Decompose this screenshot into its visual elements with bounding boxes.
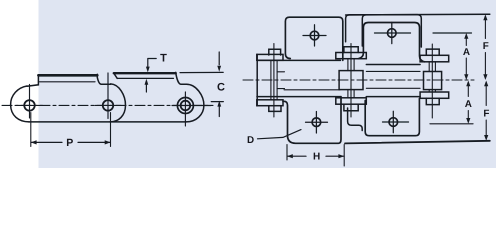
pin Pc axis line (431, 44, 433, 118)
svg-text:A: A (463, 47, 470, 58)
attachment plate lower-left outline (283, 97, 341, 144)
dimension P left extension line (30, 113, 32, 147)
svg-text:C: C (217, 81, 225, 93)
hole upper-left circle (310, 31, 319, 40)
wire: chain bottom edge span 2 (366, 96, 420, 98)
wire: flat 1 right step down (97, 74, 110, 84)
pin Pc roller box (424, 72, 442, 90)
dimension T bottom arrow (145, 79, 149, 85)
dimension T bottom leg (145, 83, 147, 93)
pin Pc bottom head box (426, 98, 439, 104)
pin P2 circle (103, 100, 114, 111)
svg-text:F: F (483, 108, 489, 119)
dimension C bottom arrow (217, 101, 221, 107)
dimension C top arrow (217, 66, 221, 72)
pin Pa bottom head box (269, 106, 281, 112)
dimension H right extension line (343, 145, 345, 167)
dimension P line left segment (31, 141, 62, 143)
attachment flat 2 left slant end (114, 73, 117, 78)
attachment plate upper-right outer profile (346, 15, 422, 47)
pin P1 horizontal crosshair (17, 104, 43, 106)
pin Pc top washer bar (420, 55, 449, 62)
pin P3 vertical crosshair (184, 92, 186, 126)
pin Pc bottom washer bar (420, 92, 449, 98)
dimension A top line (465, 35, 467, 78)
wire: chain top edge span 1 (257, 59, 341, 61)
dimension A bottom up-arrow (466, 81, 470, 87)
dimension F bottom down-arrow (484, 135, 488, 141)
wire: chain centerline (plan) (243, 79, 474, 81)
dimension C bottom extension tick (211, 101, 223, 103)
pin P3 roller circle (177, 98, 193, 114)
svg-text:P: P (66, 137, 73, 149)
dimension A top up-arrow (464, 33, 468, 39)
attachment plate lower-right bend rectangle (365, 99, 419, 136)
wire: flat 2 right step down (176, 72, 187, 84)
dimension C bottom leg (218, 104, 220, 117)
pin Pa shaft lines (271, 60, 277, 100)
dimension A bottom line (467, 83, 469, 122)
pin Pb bottom washer bar (336, 98, 367, 104)
attachment flat 1 top (thick plate edge) (38, 74, 97, 77)
dimension F top up-arrow (483, 14, 487, 20)
attachment flat 2 top (114, 72, 176, 74)
hole lower-left circle (312, 118, 321, 127)
pin Pb roller box (339, 71, 363, 90)
dimension T top arrow (146, 67, 150, 73)
dimension T bracket (148, 59, 156, 68)
hole upper-left crosshair (303, 25, 326, 46)
pin Pa bushing stubs (277, 72, 284, 89)
hole upper-right circle (388, 29, 397, 38)
pin P1 vertical crosshair (29, 85, 31, 119)
attachment flat 2 bottom line (117, 77, 173, 79)
dimension A bottom extension line (430, 123, 473, 125)
attachment plate upper-right bend rectangle (358, 23, 424, 62)
pin Pc top head box (426, 49, 439, 55)
attachment plate lower-right step profile (348, 108, 363, 131)
pin Pb bottom head box (344, 104, 358, 111)
wire: chain top inner edge span 2 (366, 70, 420, 72)
dimension C top extension line (180, 71, 223, 73)
pin P2 horizontal crosshair (95, 104, 121, 106)
pin P1 circle (24, 100, 35, 111)
hole lower-right circle (389, 118, 398, 127)
svg-text:H: H (313, 152, 320, 163)
dimension F bottom up-arrow (484, 81, 488, 87)
dimension F top line (484, 17, 486, 79)
pin Pa axis line (273, 44, 275, 118)
dimension F bottom line (485, 83, 487, 139)
link 2 left end arc around pin P2 (110, 84, 126, 122)
pin Pc shaft lines (429, 62, 435, 92)
pin Pb axis line (350, 44, 352, 118)
pin Pa bottom washer bar (257, 100, 283, 106)
dimension H right arrow (338, 154, 344, 158)
dimension H left arrow (287, 154, 293, 158)
dimension F bottom extension line (plate bottom extended) (345, 141, 490, 144)
dimension H line left segment (287, 155, 306, 157)
pin Pa top head box (269, 49, 281, 55)
dimension P right arrow (105, 140, 111, 144)
dimension F top down-arrow (483, 74, 487, 80)
wire: chain bottom edge span 1 (257, 96, 341, 98)
dimension P left arrow (31, 140, 37, 144)
svg-text:A: A (465, 99, 472, 110)
pin P3 horizontal crosshair (172, 105, 211, 107)
svg-text:F: F (483, 41, 489, 52)
attachment plate upper-left outline (285, 17, 342, 60)
pin P3 pin circle (181, 101, 191, 111)
dimension A top extension line (433, 32, 472, 34)
wire: chain centerline (left view) (2, 104, 213, 106)
background panel (0, 0, 496, 168)
pin P2 vertical crosshair (107, 73, 109, 119)
svg-text:D: D (247, 135, 254, 146)
wire: chain left end edge (256, 54, 258, 105)
link plate outline: left end arc around pin P1 (11, 86, 29, 122)
hole upper-right crosshair (375, 22, 411, 43)
dimension P line right segment (78, 141, 110, 143)
attachment plate upper-right left ear edge (362, 15, 366, 46)
pin Pb shaft lines (348, 59, 354, 98)
dimension A bottom down-arrow (466, 118, 470, 124)
pin Pb top washer bar (336, 53, 367, 59)
wire: link bottom edge (29, 121, 186, 123)
link plate outline: right end arc around pin P3 (186, 84, 204, 122)
svg-text:T: T (160, 53, 167, 65)
pin Pb top head box (344, 47, 358, 53)
dimension P right extension line (110, 113, 112, 147)
hole lower-left crosshair (306, 112, 328, 134)
dimension H line right segment (326, 155, 344, 157)
dimension C top leg (218, 52, 220, 65)
wire: chain top edge span 2 (366, 64, 420, 66)
wire: top edge left of attachment flat 1 (27, 75, 38, 86)
attachment flat 1 bottom line (40, 81, 96, 83)
wire: chain bottom inner edge span 1 (284, 89, 340, 91)
wire: chain bottom inner edge span 2 (366, 87, 420, 89)
leader line for D (258, 130, 302, 139)
dimension H left extension line (286, 145, 288, 161)
pin Pa top washer bar (257, 54, 283, 60)
hole lower-right crosshair (383, 111, 409, 132)
dimension A top down-arrow (464, 74, 468, 80)
dimension F top extension line (plate top extended) (346, 13, 490, 16)
